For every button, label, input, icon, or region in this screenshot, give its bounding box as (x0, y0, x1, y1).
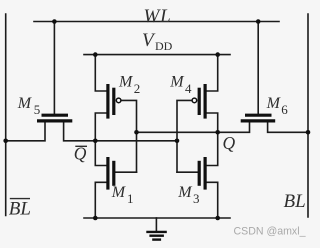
transistor M6 gate bar (245, 114, 272, 117)
transistor M2 channel (106, 84, 109, 119)
wire M2 gate to cross line (121, 100, 136, 172)
wire M1 drain lead (95, 141, 106, 166)
wire VDD rail (84, 54, 230, 56)
wire M2 drain lead (95, 113, 106, 141)
svg-text:M: M (111, 184, 127, 201)
svg-text:2: 2 (134, 81, 141, 96)
wire M5 gate from WL (53, 22, 55, 114)
wire BLbar to M5 left lead (6, 122, 45, 141)
transistor M4 gate bar (198, 88, 201, 115)
svg-text:4: 4 (185, 81, 192, 96)
transistor M1 channel (106, 157, 109, 190)
svg-text:M: M (169, 74, 185, 91)
wire M5 right lead to Qbar (64, 122, 177, 141)
wire M4 drain lead (207, 113, 218, 132)
svg-text:BL: BL (284, 191, 306, 212)
node junction dot WL-M5 (52, 19, 57, 24)
transistor M4 PMOS bubble (192, 98, 197, 103)
node junction dot Qbar drains (93, 139, 98, 144)
svg-text:M: M (118, 74, 134, 91)
svg-text:M: M (266, 95, 282, 112)
wire GND rail (84, 217, 230, 219)
svg-text:CSDN @amxl_: CSDN @amxl_ (234, 225, 307, 237)
wire M3 source lead (207, 182, 218, 218)
node junction dot BLbar (3, 139, 8, 144)
wire node Q rail (137, 122, 250, 132)
ground (155, 218, 157, 231)
wire M1 source lead (95, 182, 106, 218)
wire BLbar bitline (5, 14, 7, 216)
node junction dot Q drains (215, 130, 220, 135)
wire M6 gate from WL (257, 22, 259, 114)
svg-text:5: 5 (34, 102, 41, 117)
wire M3 drain lead (207, 132, 218, 165)
transistor M2 gate bar (112, 88, 115, 115)
wire BL bitline (307, 14, 309, 217)
svg-text:M: M (177, 184, 193, 201)
transistor M1 gate bar (112, 161, 115, 186)
wire M2 source lead (95, 55, 106, 91)
wire M1 gate lead (115, 171, 136, 173)
node junction dot VDD-M4 (215, 52, 220, 57)
ground bar 1 (146, 231, 167, 233)
node junction dot Q to M1/M2 gates (134, 130, 139, 135)
svg-text:WL: WL (144, 6, 172, 27)
svg-text:BL: BL (9, 198, 31, 219)
transistor M4 channel (204, 84, 207, 119)
svg-text:1: 1 (127, 191, 134, 206)
node junction dot Qbar to M3/M4 gates (175, 139, 180, 144)
svg-text:3: 3 (193, 191, 200, 206)
ground bar 3 (152, 238, 161, 240)
svg-text:Q: Q (223, 133, 236, 153)
wire WL rail (34, 21, 279, 23)
svg-text:M: M (17, 95, 33, 112)
svg-text:DD: DD (155, 39, 173, 53)
wire M6 right lead to BL (268, 122, 308, 132)
node junction dot VDD-M2 (93, 52, 98, 57)
node junction dot BL (306, 130, 311, 135)
transistor M5 channel (37, 119, 72, 122)
svg-text:6: 6 (281, 102, 288, 117)
transistor M3 gate bar (198, 161, 201, 186)
transistor M2 PMOS bubble (116, 98, 121, 103)
wire M3 gate lead (177, 171, 199, 173)
node junction dot WL-M6 (256, 19, 261, 24)
node junction dot GND-M1 (93, 216, 98, 221)
transistor M5 gate bar (42, 114, 69, 117)
ground bar 2 (149, 234, 164, 236)
wire M4 gate to cross line (177, 100, 193, 172)
node junction dot GND-M3 (215, 216, 220, 221)
wire M4 source lead (207, 55, 218, 91)
transistor M6 channel (241, 119, 276, 122)
transistor M3 channel (204, 157, 207, 190)
